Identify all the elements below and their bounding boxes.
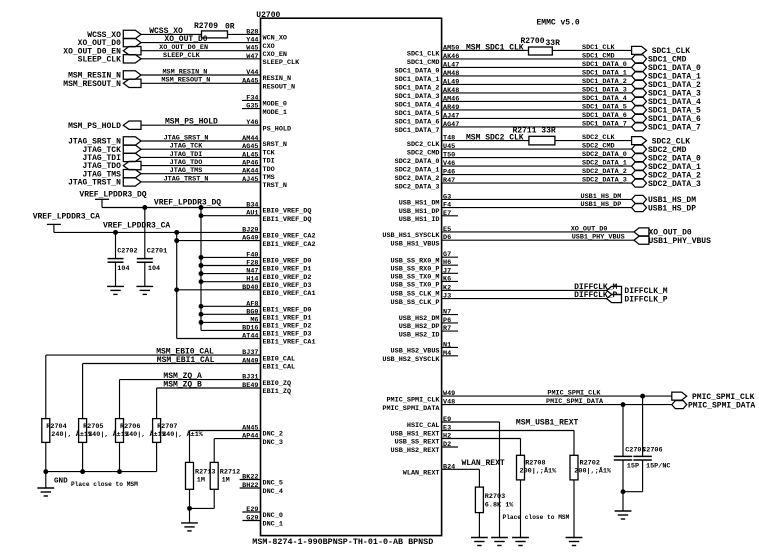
resistor R2708 200 [517, 455, 558, 480]
svg-text:AL47: AL47 [443, 61, 459, 69]
pin BK22 DNC_5 [240, 474, 283, 488]
svg-text:BE49: BE49 [242, 382, 258, 390]
net flag WCSS_XO [87, 30, 141, 40]
svg-text:JTAG_TRST_N: JTAG_TRST_N [164, 175, 209, 183]
svg-text:15P/NC: 15P/NC [646, 463, 670, 471]
svg-text:SLEEP_CLK: SLEEP_CLK [78, 55, 121, 64]
svg-text:B28: B28 [246, 28, 258, 36]
svg-text:N7: N7 [443, 309, 451, 317]
pin J7 USB_SS_TX0_M [391, 267, 458, 281]
pin AN49 EBI1_CAL [83, 358, 296, 372]
svg-text:EMMC v5.0: EMMC v5.0 [537, 19, 580, 28]
svg-text:EBI1_VREF_CA2: EBI1_VREF_CA2 [263, 241, 316, 249]
svg-text:DIFFCLK_P: DIFFCLK_P [624, 295, 667, 304]
pin H2 USB_SS_REXT [395, 433, 521, 447]
svg-text:P46: P46 [443, 169, 455, 177]
wire DNC_3 drop [213, 439, 215, 463]
svg-text:R47: R47 [443, 177, 455, 185]
net flag SDC1_CMD [632, 55, 687, 65]
svg-text:BH22: BH22 [242, 482, 258, 490]
pin AL49 SDC1_DATA_2 [395, 78, 632, 92]
net flag DIFFCLK_M [607, 286, 668, 296]
svg-text:J7: J7 [443, 267, 451, 275]
svg-text:U45: U45 [443, 143, 455, 151]
pin AK44 TMS [141, 168, 275, 182]
resistor R2706 240 ohm [116, 419, 167, 443]
svg-text:TMS: TMS [263, 174, 275, 182]
svg-text:JTAG_TMS: JTAG_TMS [170, 167, 203, 175]
wire R2704 drop [45, 355, 47, 419]
pin BG9 EBI1_VREF_D1 [201, 308, 311, 322]
net flag USB1_HS_DM [632, 195, 697, 205]
wire USB_HS1_REXT drop [573, 430, 575, 455]
svg-text:AM50: AM50 [443, 44, 459, 52]
net flag SDC1_CLK [632, 46, 691, 56]
pin P6 USB_HS2_DP [399, 317, 458, 331]
pin BJ29 EBI0_VREF_CA2 [54, 226, 316, 240]
svg-text:SDC1_CLK: SDC1_CLK [582, 44, 616, 52]
svg-text:MSM_RESOUT_N: MSM_RESOUT_N [161, 77, 210, 85]
resistor R2712 1M [210, 462, 240, 489]
pin F28 EBI0_VREF_D1 [201, 260, 311, 274]
svg-text:AL49: AL49 [443, 78, 459, 86]
svg-text:USB_HS1_SYSCLK: USB_HS1_SYSCLK [382, 232, 440, 240]
svg-text:USB_HS1_DP: USB_HS1_DP [399, 208, 440, 216]
svg-text:SDC1_CMD: SDC1_CMD [582, 52, 615, 60]
svg-text:MODE_0: MODE_0 [263, 101, 287, 109]
svg-text:F28: F28 [246, 260, 258, 268]
svg-text:EBI1_VREF_D2: EBI1_VREF_D2 [263, 323, 312, 331]
svg-text:AJ47: AJ47 [443, 112, 459, 120]
svg-text:H14: H14 [246, 276, 258, 284]
svg-text:V44: V44 [246, 69, 258, 77]
pin AG49 EBI1_VREF_CA2 [177, 235, 316, 249]
ground below R2702 [566, 537, 583, 539]
svg-text:AL45: AL45 [242, 151, 258, 159]
wire R2705 to gnd bus [82, 442, 84, 471]
wire WLAN_REXT drop [478, 469, 480, 487]
svg-text:SDC2_DATA_0: SDC2_DATA_0 [395, 158, 440, 166]
pin N47 EBI0_VREF_D2 [201, 268, 311, 282]
net flag USB1_HS_DP [632, 204, 697, 214]
net flag MSM_RESOUT_N [63, 79, 141, 89]
pin AM50 SDC1_CLK [407, 44, 528, 58]
svg-text:SDC2_DATA_1: SDC2_DATA_1 [395, 166, 440, 174]
svg-text:EBI1_VREF_D0: EBI1_VREF_D0 [263, 307, 312, 315]
net flag JTAG_TDI [82, 153, 141, 163]
svg-text:GND: GND [54, 477, 68, 485]
svg-text:PMIC_SPMI_DATA: PMIC_SPMI_DATA [546, 398, 604, 406]
svg-text:USB1_HS_DP: USB1_HS_DP [648, 204, 696, 213]
svg-text:AG49: AG49 [242, 235, 258, 243]
svg-text:USB1_HS_DM: USB1_HS_DM [581, 193, 622, 201]
svg-text:SDC2_DATA_2: SDC2_DATA_2 [395, 175, 440, 183]
pin BE49 EBI1_ZQ [157, 382, 291, 396]
svg-text:R2712: R2712 [220, 468, 240, 476]
svg-text:R2705: R2705 [83, 423, 103, 431]
pin R47 SDC2_DATA_3 [395, 177, 632, 191]
pin G7 USB_SS_RX0_M [391, 251, 458, 265]
svg-text:EBI0_VREF_DQ: EBI0_VREF_DQ [263, 208, 312, 216]
svg-text:RESIN_N: RESIN_N [263, 75, 292, 83]
svg-text:B24: B24 [443, 463, 455, 471]
pin U45 SDC2_CMD [407, 143, 632, 157]
svg-text:R2706: R2706 [120, 423, 140, 431]
pin H6 USB_SS_RX0_P [391, 259, 458, 273]
pin G3 USB_HS1_DM [399, 193, 632, 207]
svg-text:AK44: AK44 [242, 168, 258, 176]
svg-text:K6: K6 [443, 275, 451, 283]
ground GND bus [37, 472, 68, 496]
power stub VREF_LPDDR3_DQ [79, 190, 146, 207]
svg-text:XO_OUT_D0: XO_OUT_D0 [571, 225, 608, 233]
svg-text:SDC1_DATA_5: SDC1_DATA_5 [582, 103, 627, 111]
svg-text:SDC2_CLK: SDC2_CLK [582, 134, 616, 142]
svg-text:SDC1_DATA_4: SDC1_DATA_4 [582, 95, 627, 103]
pin AJ45 TRST_N [141, 176, 287, 190]
resistor R2703 6.8K [475, 487, 514, 512]
pin Y46 PS_HOLD [141, 119, 291, 133]
svg-text:SDC2_DATA_2: SDC2_DATA_2 [582, 168, 627, 176]
svg-text:AA45: AA45 [242, 77, 258, 85]
svg-text:EBI0_VREF_CA1: EBI0_VREF_CA1 [263, 290, 316, 298]
IC U2700 MSM-8274 body [261, 18, 442, 535]
svg-text:EBI1_ZQ: EBI1_ZQ [263, 388, 292, 396]
svg-text:SLEEP_CLK: SLEEP_CLK [163, 52, 201, 60]
resistor R2705 240 ohm [79, 419, 130, 443]
svg-text:V46: V46 [443, 160, 455, 168]
svg-text:SDC1_DATA_5: SDC1_DATA_5 [395, 110, 440, 118]
pin BD40 EBI0_VREF_CA1 [177, 284, 316, 298]
svg-text:USB_SS_CLK_P: USB_SS_CLK_P [391, 299, 440, 307]
resistor R2713 1M [186, 462, 216, 489]
net flag SDC1_DATA_1 [632, 72, 701, 82]
svg-text:SDC1_DATA_4: SDC1_DATA_4 [395, 102, 440, 110]
svg-text:SDC2_CMD: SDC2_CMD [407, 149, 440, 157]
svg-text:SDC2_CLK: SDC2_CLK [407, 141, 441, 149]
pin AM46 SDC1_DATA_4 [395, 95, 632, 109]
svg-text:SDC2_CMD: SDC2_CMD [582, 143, 615, 151]
svg-text:TDI: TDI [263, 158, 275, 166]
resistor R2702 200 [570, 455, 612, 480]
svg-text:D2: D2 [443, 441, 451, 449]
svg-text:BJ31: BJ31 [242, 374, 258, 382]
pin M4 USB_HS2_SYSCLK [382, 350, 458, 364]
svg-text:AM44: AM44 [242, 135, 258, 143]
svg-text:USB_HS1_REXT: USB_HS1_REXT [391, 431, 440, 439]
net flag PMIC_SPMI_DATA [672, 401, 756, 411]
svg-text:E29: E29 [246, 506, 258, 514]
svg-text:33R: 33R [546, 39, 561, 48]
svg-text:AG45: AG45 [242, 143, 258, 151]
svg-text:USB_HS2_SYSCLK: USB_HS2_SYSCLK [382, 356, 440, 364]
net flag JTAG_SRST_N [68, 137, 141, 147]
svg-text:AN49: AN49 [242, 358, 258, 366]
pin V48 PMIC_SPMI_DATA [382, 399, 671, 413]
svg-text:Place close to MSM: Place close to MSM [503, 514, 570, 521]
svg-text:AK46: AK46 [443, 53, 459, 61]
svg-text:USB_SS_TX0_P: USB_SS_TX0_P [391, 282, 440, 290]
svg-text:E5: E5 [443, 226, 451, 234]
net flag XO_OUT_D0 [78, 38, 141, 48]
svg-text:AU1: AU1 [246, 210, 258, 218]
svg-text:U2700: U2700 [256, 11, 280, 20]
pin T48 SDC2_CLK [407, 135, 529, 149]
svg-text:SDC2_DATA_1: SDC2_DATA_1 [582, 160, 627, 168]
svg-text:BG9: BG9 [246, 308, 258, 316]
svg-text:J3: J3 [443, 293, 451, 301]
pin BJ37 EBI0_CAL [46, 349, 295, 363]
svg-text:EBI1_CAL: EBI1_CAL [263, 364, 296, 372]
pin AL45 TDI [141, 151, 275, 165]
svg-text:E3: E3 [443, 425, 451, 433]
svg-text:EBI0_VREF_D0: EBI0_VREF_D0 [263, 258, 312, 266]
svg-text:CXO: CXO [263, 43, 275, 51]
svg-text:USB_HS2_REXT: USB_HS2_REXT [391, 447, 440, 455]
wire VREF_DQ vertical bus [200, 208, 202, 331]
svg-text:BD16: BD16 [242, 324, 258, 332]
net flag JTAG_TCK [82, 145, 141, 155]
svg-text:200|,;Â1%: 200|,;Â1% [574, 466, 612, 475]
svg-text:HSIC_CAL: HSIC_CAL [407, 422, 440, 430]
svg-text:VREF_LPDDR3_DQ: VREF_LPDDR3_DQ [154, 198, 221, 207]
pin AR49 SDC1_DATA_5 [395, 104, 632, 118]
wire VREF_CA vertical bus [176, 232, 178, 338]
wire ground bus [46, 471, 157, 473]
svg-text:1M: 1M [197, 477, 205, 485]
pin E9 HSIC_CAL [407, 416, 500, 430]
pin AA45 RESOUT_N [141, 77, 295, 91]
pin K2 USB_SS_CLK_M [391, 284, 607, 298]
svg-text:USB_HS2_VBUS: USB_HS2_VBUS [391, 348, 440, 356]
net flag SDC1_DATA_6 [632, 114, 701, 124]
svg-text:PS_HOLD: PS_HOLD [263, 125, 292, 133]
svg-text:SDC1_DATA_7: SDC1_DATA_7 [582, 120, 627, 128]
pin J3 USB_SS_CLK_P [391, 293, 607, 307]
svg-text:EBI0_VREF_D3: EBI0_VREF_D3 [263, 282, 312, 290]
wire R2704 to gnd bus [45, 442, 47, 471]
pin AP44 DNC_3 [214, 433, 283, 447]
svg-text:W49: W49 [443, 390, 455, 398]
svg-text:EBI0_CAL: EBI0_CAL [263, 355, 296, 363]
svg-text:104: 104 [148, 265, 160, 273]
capacitor C2705 15P [614, 405, 646, 511]
capacitor C2701 [137, 208, 167, 287]
svg-text:AP44: AP44 [242, 433, 258, 441]
svg-text:SDC1_DATA_6: SDC1_DATA_6 [395, 119, 440, 127]
wire R2706 drop [119, 380, 121, 419]
svg-text:MSM_SDC1_CLK: MSM_SDC1_CLK [466, 43, 524, 52]
pin AU1 EBI1_VREF_DQ [201, 210, 311, 224]
pin H14 EBI0_VREF_D3 [201, 276, 311, 290]
ground HSIC_CAL [491, 537, 508, 539]
svg-text:JTAG_SRST_N: JTAG_SRST_N [164, 134, 209, 142]
pin F40 EBI0_VREF_D0 [201, 251, 311, 265]
pin AG45 TCK [141, 143, 276, 157]
pin V44 RESIN_N [141, 69, 291, 83]
svg-text:PMIC_SPMI_DATA: PMIC_SPMI_DATA [382, 405, 440, 413]
svg-text:MODE_1: MODE_1 [263, 109, 287, 117]
svg-text:D6: D6 [443, 234, 451, 242]
svg-text:R2709: R2709 [194, 22, 218, 31]
junction dot PMIC_SPMI_DATA / C2705 [621, 402, 626, 407]
wire WCSS_XO to R2709 [141, 33, 202, 35]
svg-text:SDC1_CLK: SDC1_CLK [407, 51, 441, 59]
wire R2707 to gnd bus [156, 442, 158, 471]
svg-text:6.8K 1%: 6.8K 1% [485, 501, 514, 509]
svg-text:JTAG_TDI: JTAG_TDI [170, 151, 203, 159]
net flag PMIC_SPMI_CLK [672, 392, 755, 402]
pin AT44 EBI1_VREF_CA1 [177, 333, 316, 347]
net flag MSM_PS_HOLD [68, 121, 141, 131]
svg-text:SDC2_DATA_0: SDC2_DATA_0 [582, 151, 627, 159]
svg-text:SDC1_CMD: SDC1_CMD [407, 59, 440, 67]
pin B24 WLAN_REXT [403, 463, 480, 477]
svg-text:EBI1_VREF_DQ: EBI1_VREF_DQ [263, 216, 312, 224]
svg-text:DNC_0: DNC_0 [263, 512, 283, 520]
svg-text:Y46: Y46 [246, 119, 258, 127]
pin Y44 CXO [141, 37, 275, 51]
svg-text:G7: G7 [443, 251, 451, 259]
svg-text:W47: W47 [246, 53, 258, 61]
net flag MSM_RESIN_N [68, 71, 141, 81]
junction dots VREF_DQ bus [142, 205, 203, 325]
pin W47 SLEEP_CLK [141, 53, 300, 67]
svg-text:MSM-8274-1-990BPNSP-TH-01-0-AB: MSM-8274-1-990BPNSP-TH-01-0-AB BPNSD [252, 537, 433, 547]
svg-text:G3: G3 [443, 193, 451, 201]
svg-text:AG47: AG47 [443, 121, 459, 129]
svg-text:R2713: R2713 [195, 468, 215, 476]
svg-text:DNC_1: DNC_1 [263, 521, 283, 529]
pin AN45 DNC_2 [190, 425, 283, 439]
svg-text:USB_HS1_ID: USB_HS1_ID [399, 216, 440, 224]
svg-text:AT44: AT44 [242, 333, 258, 341]
net flag SDC2_CMD [632, 145, 687, 155]
net flag JTAG_TRST_N [68, 178, 141, 188]
pin B34 EBI0_VREF_DQ [102, 202, 311, 216]
svg-text:K2: K2 [443, 284, 451, 292]
svg-text:EBI1_VREF_D1: EBI1_VREF_D1 [263, 315, 312, 323]
wire R2703 to gnd [478, 513, 480, 538]
svg-text:MSM_RESOUT_N: MSM_RESOUT_N [63, 80, 121, 89]
svg-text:SDC1_DATA_2: SDC1_DATA_2 [395, 85, 440, 93]
net flag SLEEP_CLK [78, 55, 141, 65]
svg-text:EBI1_VREF_CA1: EBI1_VREF_CA1 [263, 339, 316, 347]
net flag SDC1_DATA_7 [632, 123, 701, 133]
svg-text:R2700: R2700 [521, 37, 545, 46]
svg-text:BD40: BD40 [242, 284, 258, 292]
pin M6 EBI1_VREF_D2 [201, 316, 311, 330]
wire USB_SS_REXT drop [520, 439, 522, 456]
svg-text:DNC_5: DNC_5 [263, 480, 283, 488]
svg-text:E7: E7 [443, 210, 451, 218]
svg-text:USB_SS_RX0_M: USB_SS_RX0_M [391, 257, 440, 265]
svg-text:USB_HS2_ID: USB_HS2_ID [399, 331, 440, 339]
net flag SDC2_DATA_2 [632, 171, 701, 181]
net flag SDC2_DATA_1 [632, 162, 701, 172]
svg-text:104: 104 [117, 265, 129, 273]
svg-text:AJ45: AJ45 [242, 176, 258, 184]
svg-text:N1: N1 [443, 341, 451, 349]
svg-text:MSM_USB1_REXT: MSM_USB1_REXT [516, 419, 579, 428]
net flag SDC1_DATA_3 [632, 89, 701, 99]
svg-text:USB_HS2_DM: USB_HS2_DM [399, 315, 440, 323]
svg-text:M6: M6 [250, 316, 258, 324]
svg-text:PMIC_SPMI_CLK: PMIC_SPMI_CLK [547, 390, 601, 398]
svg-text:SDC1_DATA_0: SDC1_DATA_0 [582, 61, 627, 69]
pin G35 MODE_1 [242, 103, 287, 117]
pin AP46 TDO [141, 160, 275, 174]
svg-text:AN45: AN45 [242, 425, 258, 433]
svg-text:SDC1_DATA_7: SDC1_DATA_7 [648, 124, 701, 133]
svg-text:T50: T50 [443, 152, 455, 160]
svg-text:R2708: R2708 [525, 459, 545, 467]
svg-text:DNC_2: DNC_2 [263, 431, 283, 439]
net flag SDC2_DATA_0 [632, 154, 701, 164]
pin D2 USB_HS2_REXT [391, 441, 458, 455]
svg-text:AR49: AR49 [443, 104, 459, 112]
svg-text:G29: G29 [246, 515, 258, 523]
svg-text:SDC2_DATA_3: SDC2_DATA_3 [395, 183, 440, 191]
svg-text:B34: B34 [246, 202, 258, 210]
svg-text:Place close to MSM: Place close to MSM [71, 481, 138, 488]
resistor R2709 [194, 22, 235, 38]
wire R2708 to gnd [520, 480, 522, 538]
pin R7 USB_HS2_ID [399, 325, 458, 339]
net flag XO_OUT_D0_EN [63, 47, 141, 57]
net flag SDC1_DATA_0 [632, 63, 701, 73]
svg-text:EBI0_VREF_CA2: EBI0_VREF_CA2 [263, 233, 316, 241]
svg-text:F4: F4 [443, 202, 451, 210]
svg-text:SDC1_DATA_6: SDC1_DATA_6 [582, 112, 627, 120]
junction dots ground bus [43, 469, 122, 474]
capacitor C2706 15P/NC [623, 396, 670, 492]
pin AM44 SRST_N [141, 135, 287, 149]
svg-text:WLAN_REXT: WLAN_REXT [403, 470, 440, 478]
svg-text:SDC1_DATA_2: SDC1_DATA_2 [582, 78, 627, 86]
svg-text:BK22: BK22 [242, 474, 258, 482]
svg-text:BJ37: BJ37 [242, 349, 258, 357]
svg-text:DNC_4: DNC_4 [263, 488, 283, 496]
svg-text:USB1_PHY_VBUS: USB1_PHY_VBUS [649, 237, 712, 246]
wire DNC_2 drop [189, 431, 191, 463]
junction dot PMIC_SPMI_CLK / C2706 [640, 394, 645, 399]
svg-text:G35: G35 [246, 103, 258, 111]
svg-text:MSM_PS_HOLD: MSM_PS_HOLD [165, 118, 218, 127]
svg-text:MSM_ZQ_B: MSM_ZQ_B [163, 380, 202, 389]
pin B28 WCN_XO [228, 28, 287, 42]
svg-text:RESOUT_N: RESOUT_N [263, 84, 296, 92]
pin V46 SDC2_DATA_1 [395, 160, 632, 174]
svg-text:MSM_SDC2_CLK: MSM_SDC2_CLK [466, 134, 524, 143]
svg-text:200|,;Â1%: 200|,;Â1% [520, 466, 558, 475]
pin BJ31 EBI0_ZQ [120, 374, 292, 388]
svg-text:JTAG_TRST_N: JTAG_TRST_N [68, 179, 121, 188]
ground below C2702 [107, 285, 124, 287]
junction dots VREF_CA bus [113, 230, 179, 292]
net flag SDC1_DATA_4 [632, 97, 701, 107]
net flag SDC1_DATA_5 [632, 106, 701, 116]
wire R2713/R2712 bottoms [190, 489, 215, 523]
ground below C2701 [136, 285, 153, 287]
pin P46 SDC2_DATA_2 [395, 169, 632, 183]
svg-text:C2702: C2702 [117, 248, 137, 256]
svg-text:R2704: R2704 [46, 423, 66, 431]
ground below R2708 [512, 537, 529, 539]
svg-text:R2703: R2703 [485, 493, 505, 501]
svg-text:PMIC_SPMI_DATA: PMIC_SPMI_DATA [688, 401, 755, 410]
net flag XO_OUT_D0 [634, 228, 692, 238]
